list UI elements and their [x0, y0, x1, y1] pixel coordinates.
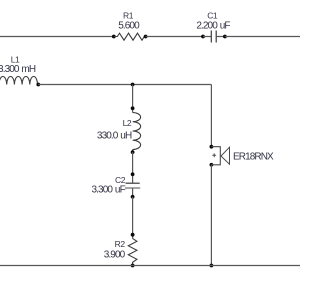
node L1 right [36, 83, 40, 87]
node C1 left [201, 35, 205, 39]
svg-text:3.300 uF: 3.300 uF [92, 185, 126, 196]
wire top-right segment [225, 36, 300, 38]
capacitor C2 plate top [126, 182, 140, 184]
node speaker bottom junction [210, 264, 214, 268]
node L2 bottom [131, 150, 135, 154]
node R1 left [112, 35, 116, 39]
svg-text:5.600: 5.600 [118, 21, 140, 32]
node C2 top [131, 172, 135, 176]
svg-text:3.900: 3.900 [104, 250, 126, 261]
inductor L2 [133, 113, 141, 150]
node mid junction [131, 83, 135, 87]
wire top-left segment [0, 36, 114, 38]
node speaker plus [210, 145, 214, 149]
speaker U1 cone [221, 147, 230, 164]
wire corner down to speaker [210, 85, 212, 147]
wire C2 to R2 [132, 197, 134, 239]
wire L2 to C2 [132, 152, 134, 183]
node C1 right [223, 35, 227, 39]
wire L2 bottom lead [132, 150, 134, 153]
wire bottom rail [0, 265, 300, 267]
svg-text:C2: C2 [115, 175, 126, 185]
wire junction down to L2 [132, 85, 134, 113]
node speaker minus [210, 163, 214, 167]
wire mid horizontal [38, 84, 211, 86]
node R1 right [144, 35, 148, 39]
wire C2 bottom lead [132, 188, 134, 197]
svg-text:C1: C1 [207, 11, 218, 21]
node C2 bottom [131, 195, 135, 199]
node R2 top [131, 233, 135, 237]
svg-text:ER18RNX: ER18RNX [233, 152, 274, 163]
capacitor C2 plate bottom [125, 187, 140, 189]
node L2 top [131, 106, 135, 110]
node R2 bottom [131, 264, 135, 268]
inductor L1 [0, 77, 38, 85]
svg-text:2.200 uF: 2.200 uF [196, 21, 230, 32]
resistor R1 [114, 33, 146, 40]
speaker U1 driver box [211, 147, 220, 165]
svg-text:330.0 uH: 330.0 uH [97, 130, 132, 141]
wire C1 left lead [203, 36, 211, 38]
svg-text:3.300 mH: 3.300 mH [0, 64, 36, 75]
svg-text:R2: R2 [115, 239, 126, 249]
resistor R2 [128, 238, 137, 265]
wire R1 to C1 [146, 36, 203, 38]
wire C1 right lead [216, 36, 225, 38]
wire speaker to bottom [210, 165, 212, 266]
svg-text:L2: L2 [123, 118, 132, 128]
svg-text:R1: R1 [123, 11, 134, 21]
capacitor C1 [211, 31, 216, 43]
speaker plus sign [212, 153, 216, 157]
